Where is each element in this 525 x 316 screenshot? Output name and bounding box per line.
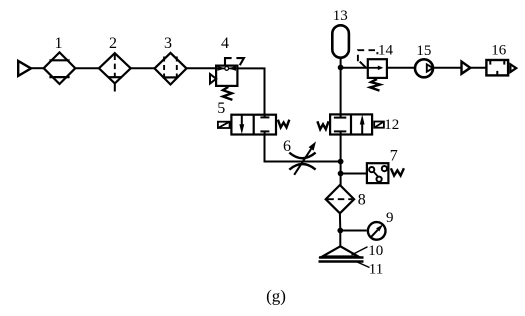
filter 8 [326,185,354,213]
wire valve 5 to node B [265,135,342,162]
pointer 11 [356,262,370,268]
svg-text:15: 15 [416,43,431,59]
component 3 dryer [155,53,187,85]
wire node D to gauge 9 [340,230,366,232]
regulator 14 [358,50,387,90]
component 1 aftercooler [44,52,76,84]
node D [337,228,343,234]
reservoir 13 [332,25,349,57]
nozzle 10 [322,246,358,256]
flow indicator 15 [415,59,433,77]
svg-text:8: 8 [358,192,366,209]
gauge 9 [368,222,386,240]
wire node A to regulator 14 [341,67,368,69]
node B [338,159,344,165]
throttle 6 [289,141,316,174]
wire 14 to indicator 15 [388,67,414,69]
node A [338,65,344,71]
svg-text:10: 10 [368,243,383,259]
wire node D to nozzle [339,231,341,248]
svg-text:14: 14 [378,42,394,58]
svg-text:1: 1 [55,35,63,52]
svg-text:4: 4 [221,35,229,52]
svg-text:2: 2 [109,35,117,52]
wire node B to node C [340,162,342,174]
node C [338,171,344,177]
wire 3 to 4 [187,67,217,69]
wire source to 1 [31,67,44,69]
svg-text:5: 5 [217,100,225,117]
wire valve 12 to node B [340,135,342,162]
wire check valve to silencer 16 [470,67,487,69]
flapper plate [319,256,364,259]
workpiece 11 [319,260,364,263]
svg-text:11: 11 [369,262,383,278]
svg-text:7: 7 [390,147,398,164]
regulator 4 [210,58,244,100]
pressure switch 7 [367,163,404,183]
wire 13 to node A [340,58,342,68]
svg-text:12: 12 [384,117,399,133]
svg-text:16: 16 [491,42,507,58]
valve 12 [317,114,384,134]
wire node A to valve 12 [340,68,342,115]
svg-text:9: 9 [386,210,394,226]
silencer 16 [486,60,516,75]
wire node C to switch 7 [341,173,367,175]
pointer 10 [352,247,368,255]
wire 1 to 2 [75,67,99,69]
check valve triangle [462,62,471,74]
wire 4 to valve 5 [237,68,264,114]
wire 15 to check valve [433,67,461,69]
wire 2 to 3 [131,67,155,69]
svg-text:3: 3 [164,35,172,52]
wire 8 to node D [339,213,341,230]
air supply triangle [18,61,31,76]
component 2 water separator [99,53,131,91]
wire node C to filter 8 [340,174,342,186]
svg-text:13: 13 [333,8,348,24]
valve 5 [218,115,289,135]
svg-text:6: 6 [283,138,291,155]
svg-text:(g): (g) [266,287,286,306]
